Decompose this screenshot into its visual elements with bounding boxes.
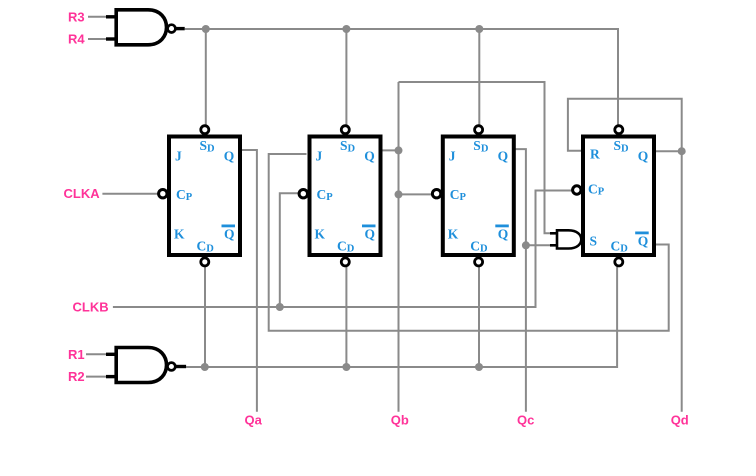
svg-text:CLKB: CLKB — [73, 300, 109, 315]
svg-text:Q: Q — [224, 149, 235, 164]
svg-text:J: J — [316, 149, 323, 164]
svg-text:K: K — [315, 227, 326, 242]
svg-text:R3: R3 — [68, 9, 85, 24]
svg-text:J: J — [175, 149, 182, 164]
svg-text:CLKA: CLKA — [64, 186, 101, 201]
svg-text:R4: R4 — [68, 32, 85, 47]
svg-text:J: J — [449, 149, 456, 164]
svg-text:R: R — [590, 146, 600, 161]
svg-text:Qa: Qa — [245, 413, 263, 428]
svg-text:K: K — [448, 227, 459, 242]
svg-text:Q: Q — [498, 149, 509, 164]
svg-text:Q: Q — [365, 227, 376, 242]
svg-text:Qc: Qc — [517, 413, 534, 428]
svg-text:Q: Q — [224, 227, 235, 242]
svg-text:Qd: Qd — [671, 413, 689, 428]
svg-text:Q: Q — [364, 149, 375, 164]
svg-text:Q: Q — [638, 149, 649, 164]
svg-text:Q: Q — [638, 234, 649, 249]
svg-text:K: K — [174, 227, 185, 242]
svg-text:R2: R2 — [68, 369, 85, 384]
svg-text:R1: R1 — [68, 347, 85, 362]
svg-text:Q: Q — [498, 227, 509, 242]
svg-text:Qb: Qb — [391, 413, 409, 428]
svg-text:S: S — [590, 234, 598, 249]
